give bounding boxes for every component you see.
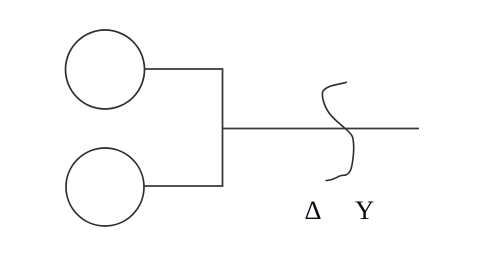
generator G2 [66,148,144,226]
label delta [305,195,322,226]
generator G1 [66,30,145,109]
wire G1 to bus [145,68,223,70]
wire G2 to bus [144,185,223,187]
bus vertical [222,68,224,187]
transmission line [223,128,420,130]
label Y [355,195,374,226]
transformer squiggle [322,82,353,180]
